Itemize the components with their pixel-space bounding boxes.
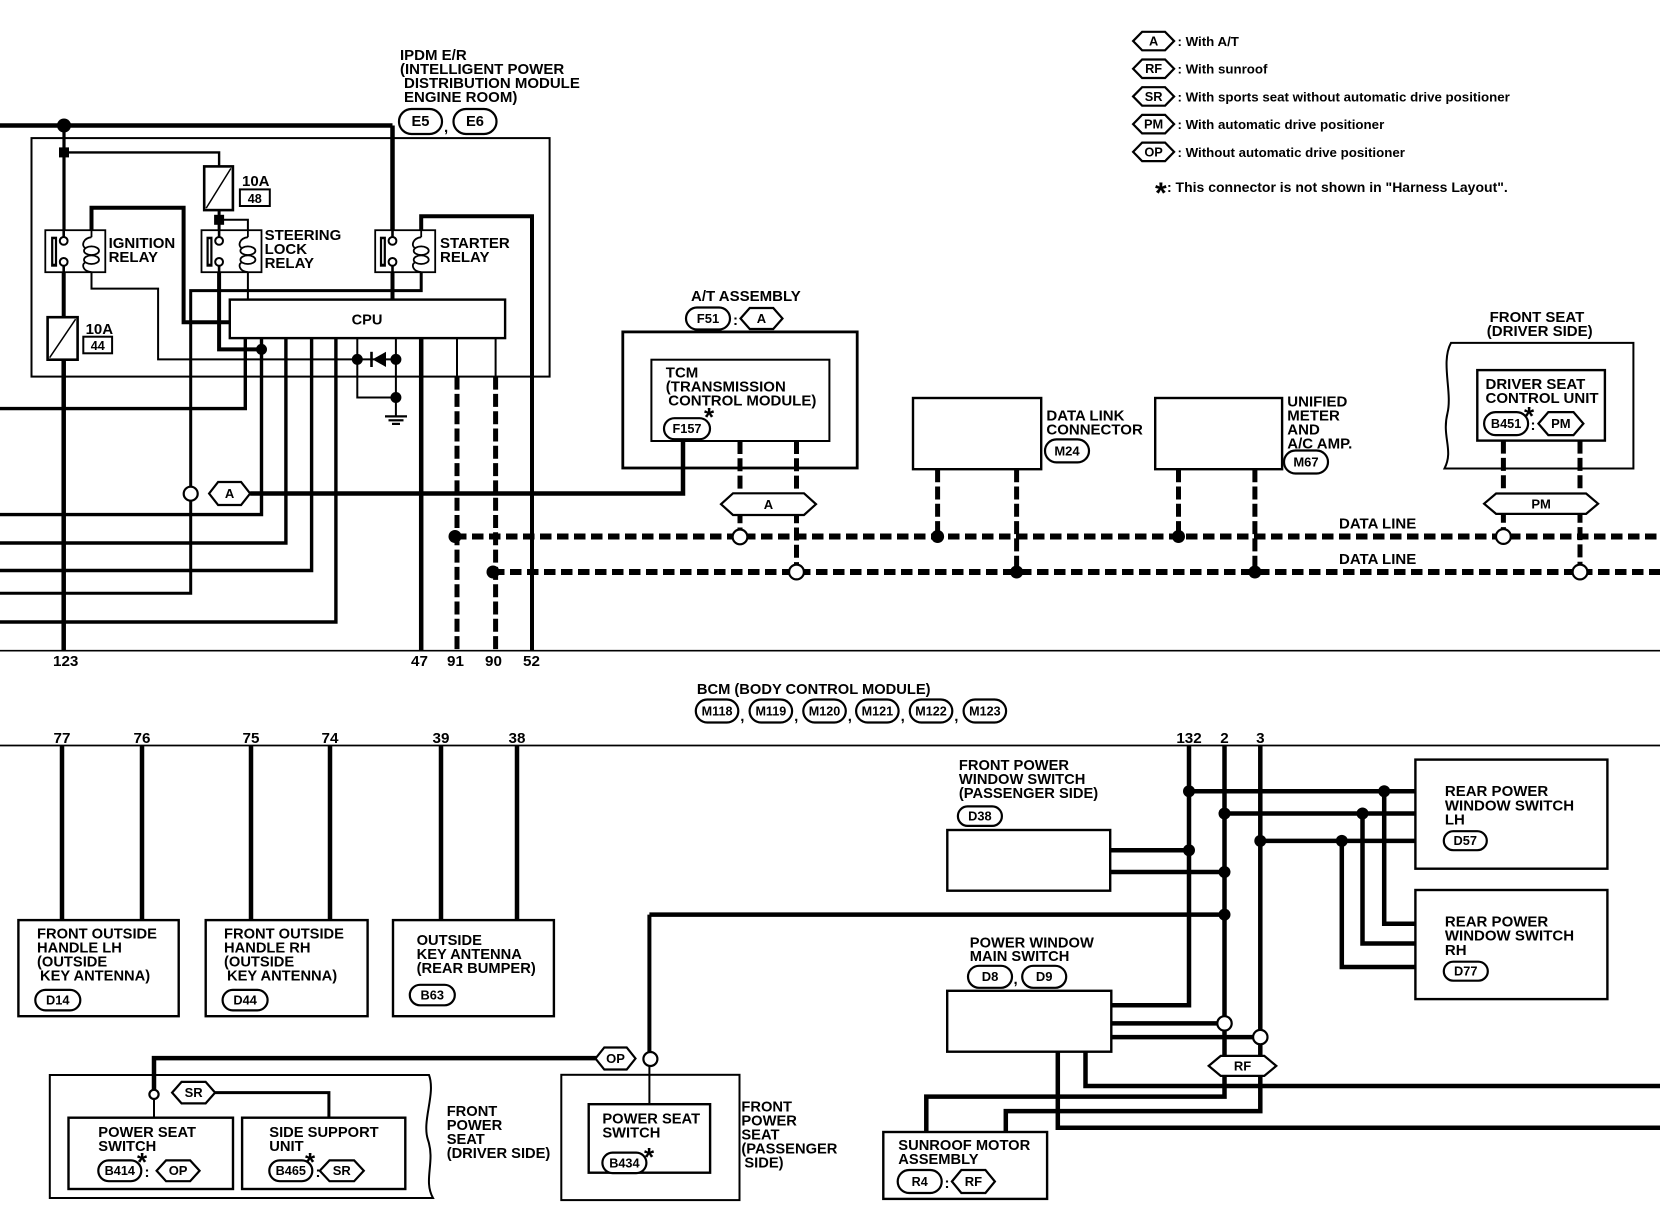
svg-text:F51: F51	[697, 311, 719, 326]
svg-text:3: 3	[1256, 730, 1264, 747]
connector M120	[803, 700, 846, 723]
svg-text:75: 75	[243, 730, 260, 747]
wire: M24 pin to data line 1 (dashed)	[935, 469, 940, 536]
wire: BCM pin 38 to B63	[515, 746, 520, 921]
wire: CPU pin to diode anode junction	[356, 338, 358, 359]
svg-text:M122: M122	[915, 704, 947, 718]
svg-text::: :	[145, 1164, 150, 1181]
hexagon code PM (wide)	[1484, 494, 1598, 514]
wire: battery power feed (top horizontal)	[0, 123, 393, 128]
svg-text:,: ,	[1014, 971, 1018, 988]
A/T assembly box	[623, 332, 857, 468]
svg-text:2: 2	[1220, 730, 1228, 747]
svg-text:,: ,	[740, 708, 744, 725]
svg-text:10A: 10A	[242, 173, 270, 190]
wire: fuse 48 output to steering lock relay	[218, 210, 221, 240]
connector circle driver seat to data line 2	[1573, 565, 1588, 580]
legend hexagon A	[1133, 32, 1174, 51]
fuse 10A #44	[48, 317, 78, 360]
junction dot line C branch down	[1336, 835, 1348, 847]
svg-text:RELAY: RELAY	[440, 249, 489, 266]
wire: CPU pin 90 (solid part inside IPDM)	[495, 338, 497, 377]
side support unit box	[242, 1118, 405, 1189]
svg-text:D44: D44	[233, 993, 257, 1008]
front outside handle LH box	[18, 920, 178, 1016]
wire: BCM pin 75 to D44	[249, 746, 254, 921]
svg-text:M120: M120	[809, 704, 841, 718]
wire: continuation below connector circle to left exit at y593	[0, 501, 191, 594]
svg-text:M118: M118	[702, 704, 733, 718]
svg-text:M67: M67	[1293, 454, 1318, 469]
junction dot at fuse-48 branch	[59, 147, 69, 157]
diode (between CPU pins)	[352, 354, 363, 365]
hexagon code SR at B465	[320, 1160, 364, 1181]
BCM top edge line	[0, 650, 1660, 652]
svg-text:RF: RF	[965, 1174, 982, 1189]
wire: BCM pin 3 down (to RF branch)	[1258, 746, 1263, 1031]
connector circle on driver seat feed	[149, 1090, 158, 1099]
legend hexagon PM	[1133, 115, 1174, 133]
svg-text:RF: RF	[1234, 1059, 1251, 1074]
svg-text:A: A	[225, 486, 235, 501]
wire: CPU pin 90 dashed to BCM	[493, 377, 498, 651]
junction dot line C at pin3	[1254, 835, 1266, 847]
svg-text:OP: OP	[169, 1163, 188, 1178]
wire: steering relay contact output to CPU junction	[219, 272, 261, 349]
wire: M67 pin to data line 2 (dashed)	[1252, 469, 1257, 572]
svg-text:MAIN SWITCH: MAIN SWITCH	[970, 949, 1070, 965]
wire: CPU pin to left exit y622	[0, 338, 336, 622]
svg-text:CPU: CPU	[352, 313, 383, 329]
wire: ignition relay contact output to fuse 44	[62, 272, 66, 317]
connector M24	[1045, 439, 1089, 462]
connector circle driver seat to data line 1	[1496, 529, 1511, 544]
unified meter and A/C amp box	[1155, 398, 1282, 469]
wire: TCM data pin 2 (dashed)	[794, 441, 799, 565]
wire: fuse 44 output down to BCM pin 123	[61, 360, 66, 651]
junction dot M67/data line 1	[1172, 530, 1185, 543]
wire: SR branch to side support unit	[215, 1093, 329, 1118]
connector circle pin3/main switch	[1253, 1030, 1267, 1044]
svg-text:R4: R4	[912, 1175, 928, 1189]
svg-text:PM: PM	[1144, 117, 1163, 132]
svg-text:CONTROL MODULE): CONTROL MODULE)	[668, 393, 816, 410]
svg-text:(DRIVER SIDE): (DRIVER SIDE)	[447, 1146, 551, 1162]
connector D57	[1444, 831, 1487, 850]
svg-text:OP: OP	[606, 1051, 625, 1066]
wire: steering relay coil bottom to CPU top	[247, 272, 249, 299]
power seat switch box (driver)	[69, 1118, 234, 1189]
wire: TCM pin to A hexagon branch	[681, 441, 686, 468]
svg-text::: :	[1531, 417, 1536, 434]
wire: BCM pin 74 to D44	[328, 746, 333, 921]
connector M122	[910, 700, 953, 723]
svg-text:RELAY: RELAY	[265, 255, 314, 272]
wire: ignition relay coil top to CPU (up-over-down)	[92, 208, 230, 322]
junction dot below fuse 48	[214, 215, 224, 225]
data line 2 (dashed bus)	[493, 569, 1660, 575]
wire: line A drop to rear switch RH	[1384, 791, 1415, 924]
power seat switch box (passenger)	[589, 1104, 710, 1173]
wire: driver seat feed from OP hexagon line	[154, 1058, 597, 1090]
TCM box	[651, 360, 829, 441]
svg-text::: :	[945, 1175, 950, 1192]
svg-text:D57: D57	[1454, 833, 1477, 848]
wire: BCM pin 77 to D14	[60, 746, 65, 921]
svg-text:,: ,	[794, 708, 798, 725]
svg-text:,: ,	[954, 708, 958, 725]
wire: diode bypass loop	[357, 359, 396, 397]
wire: power feed drop to starter relay contact	[390, 126, 395, 240]
wire: CPU pin to left exit y408	[0, 338, 245, 409]
wire: drop to OP connector circle	[647, 915, 651, 1052]
svg-text:123: 123	[53, 653, 78, 670]
legend hexagon RF	[1133, 60, 1174, 79]
junction dot at ground node	[390, 392, 401, 403]
junction dot on power feed at x64	[57, 119, 71, 133]
rear power window switch LH box	[1415, 760, 1607, 869]
BCM bottom edge line	[0, 745, 1660, 747]
connector B414	[98, 1160, 141, 1181]
connector M121	[856, 700, 899, 723]
svg-text:(REAR BUMPER): (REAR BUMPER)	[417, 961, 536, 977]
connector B465	[269, 1160, 312, 1181]
front power seat (driver side) box with torn right edge	[50, 1075, 433, 1198]
svg-text:91: 91	[447, 653, 464, 670]
legend hexagon OP	[1133, 143, 1174, 162]
svg-text:M119: M119	[755, 704, 786, 718]
wire: branch line C to rear power window switch LH	[1260, 839, 1415, 844]
svg-text:,: ,	[444, 119, 448, 136]
junction dot line B at pin2	[1219, 808, 1231, 820]
wire: TCM data pin 1 (dashed)	[738, 441, 743, 530]
wire: main switch bottom pin to right edge (lower)	[1058, 1052, 1660, 1128]
svg-text:B451: B451	[1491, 417, 1521, 431]
front seat (driver side) box with torn left edge	[1445, 343, 1634, 469]
legend hexagon SR	[1133, 87, 1174, 106]
svg-text:SIDE): SIDE)	[744, 1156, 783, 1172]
label box: 48	[240, 189, 270, 206]
wire: jog from fuse 48 output to steering relay coil	[219, 220, 248, 231]
svg-text:B434: B434	[609, 1156, 639, 1170]
svg-text:: With A/T: : With A/T	[1178, 34, 1239, 49]
wire: M24 pin to data line 2 (dashed)	[1014, 469, 1019, 572]
wire: pin2 below circle through RF hexagon to sunroof	[926, 1031, 1224, 1132]
wire: ignition relay supply drop from power feed	[62, 126, 65, 241]
wire: driver seat pin to data line 2 (dashed)	[1578, 441, 1583, 565]
sunroof motor assembly box	[883, 1132, 1047, 1199]
svg-text:PM: PM	[1551, 416, 1571, 431]
connector F51	[686, 308, 730, 330]
connector B63	[410, 985, 455, 1006]
connector circle pin2/main switch	[1217, 1016, 1231, 1030]
svg-text:SWITCH: SWITCH	[98, 1139, 156, 1155]
svg-text:UNIT: UNIT	[269, 1139, 303, 1155]
rear power window switch RH box	[1415, 890, 1607, 999]
junction dot at pin2/OP branch	[1219, 909, 1231, 921]
wire: branch line A to rear power window switch LH	[1189, 789, 1415, 794]
wire: BCM pin 39 to B63	[439, 746, 444, 921]
svg-text:ASSEMBLY: ASSEMBLY	[898, 1152, 978, 1168]
svg-text:ENGINE ROOM): ENGINE ROOM)	[404, 89, 517, 106]
svg-text:DATA LINE: DATA LINE	[1339, 516, 1416, 533]
connector D9	[1022, 966, 1066, 988]
svg-text:,: ,	[848, 708, 852, 725]
wire: branch line B to rear power window switch LH	[1225, 811, 1416, 816]
wire: CPU pin to ground	[395, 338, 397, 359]
wire: BCM pin 2 down (to RF branch)	[1222, 746, 1227, 1017]
svg-text:44: 44	[91, 339, 105, 353]
junction dot data line 2 at x493	[487, 566, 500, 579]
svg-text:(PASSENGER SIDE): (PASSENGER SIDE)	[959, 786, 1098, 802]
junction dot data line 1 at x455	[449, 530, 462, 543]
hexagon code PM at B451	[1538, 412, 1583, 435]
svg-text:: With automatic drive positio: : With automatic drive positioner	[1178, 117, 1385, 132]
svg-text:A: A	[1149, 33, 1158, 48]
svg-text:LH: LH	[1445, 812, 1465, 829]
wire: main switch output to pin3 circle	[1111, 1035, 1253, 1040]
svg-text:B414: B414	[105, 1164, 135, 1178]
wire: ignition relay coil bottom toward diode/ground bus	[92, 272, 358, 359]
hexagon code SR (inline)	[172, 1082, 215, 1104]
relay: starter relay	[375, 230, 435, 272]
connector B434	[602, 1153, 646, 1174]
hexagon code OP at B414	[157, 1160, 200, 1181]
wire: below circle into power seat switch B414	[153, 1099, 155, 1118]
wire: BCM pin 132 down to power window main switch	[1111, 746, 1189, 1006]
junction dot line A at pin132	[1183, 785, 1195, 797]
connector M118	[696, 700, 739, 723]
svg-text:SR: SR	[1145, 89, 1163, 104]
svg-text::: :	[316, 1164, 321, 1181]
svg-text:: This connector is not shown: : This connector is not shown in "Harnes…	[1167, 179, 1508, 195]
connector M119	[750, 700, 793, 723]
svg-text:SWITCH: SWITCH	[602, 1126, 660, 1142]
connector E6	[454, 109, 497, 134]
svg-text:D9: D9	[1036, 969, 1053, 984]
svg-text:: With sunroof: : With sunroof	[1178, 62, 1269, 77]
svg-text:10A: 10A	[86, 321, 114, 338]
wire: line C drop to rear switch RH	[1342, 841, 1416, 967]
connector circle TCM to data line 2	[789, 565, 804, 580]
svg-text:52: 52	[523, 653, 540, 670]
wire: M67 pin to data line 1 (dashed)	[1176, 469, 1181, 536]
connector D77	[1444, 962, 1488, 981]
connector E5	[399, 109, 442, 134]
wire: below OP circle into power seat switch B434	[648, 1066, 650, 1104]
svg-text:47: 47	[411, 653, 428, 670]
svg-text:: With sports seat without aut: : With sports seat without automatic dri…	[1178, 89, 1510, 104]
svg-text:B63: B63	[421, 987, 444, 1002]
svg-text:OP: OP	[1144, 144, 1163, 159]
relay: ignition relay	[45, 230, 105, 272]
connector M67	[1284, 451, 1328, 474]
svg-text:77: 77	[54, 730, 71, 747]
driver seat control unit box	[1477, 370, 1605, 441]
connector D44	[223, 990, 268, 1011]
svg-text:DATA LINE: DATA LINE	[1339, 551, 1416, 568]
junction dot D38 line 1	[1183, 844, 1195, 856]
wire: long branch from pin2 line to OP connector (passenger seat)	[649, 912, 1224, 917]
svg-text:48: 48	[248, 192, 262, 206]
wire: line B drop to rear switch RH	[1363, 814, 1416, 944]
junction dot M67/data line 2	[1248, 566, 1261, 579]
svg-text:CONNECTOR: CONNECTOR	[1046, 422, 1143, 439]
wire: CPU pin to left exit y570	[0, 338, 312, 570]
svg-text:A: A	[764, 497, 774, 512]
svg-text:A/T ASSEMBLY: A/T ASSEMBLY	[691, 288, 801, 305]
wire: driver seat pin to data line 1 (dashed)	[1501, 441, 1506, 530]
wire: CPU pin 47 to BCM	[419, 338, 424, 651]
svg-text:: Without automatic drive posi: : Without automatic drive positioner	[1178, 145, 1405, 160]
connector B451	[1484, 412, 1528, 435]
wire: main switch output to pin2 circle	[1111, 1021, 1217, 1026]
wire: starter relay contact bottom to CPU top	[391, 272, 395, 299]
wire: CPU pin to left exit y543	[0, 338, 286, 543]
svg-text:RELAY: RELAY	[109, 249, 158, 266]
svg-text:KEY ANTENNA): KEY ANTENNA)	[40, 969, 150, 985]
svg-text:M24: M24	[1054, 443, 1080, 458]
label box: 44	[83, 337, 112, 354]
junction dot D38 line 2	[1219, 866, 1231, 878]
wire: D38 output 2 to pin2 line	[1110, 870, 1226, 875]
wire: starter relay coil top to IPDM pin 52	[421, 216, 532, 650]
front power window switch (passenger) box	[947, 830, 1110, 891]
front power seat (passenger side) box	[561, 1075, 739, 1200]
svg-text:(DRIVER SIDE): (DRIVER SIDE)	[1487, 323, 1593, 340]
svg-text:90: 90	[485, 653, 502, 670]
svg-text::: :	[733, 312, 738, 329]
svg-text:D8: D8	[982, 969, 999, 984]
svg-text:D38: D38	[968, 809, 991, 824]
svg-text:CONTROL UNIT: CONTROL UNIT	[1486, 390, 1599, 407]
connector M123	[964, 700, 1007, 723]
front outside handle RH box	[206, 920, 368, 1016]
svg-text:RH: RH	[1445, 942, 1467, 959]
hexagon code A (left branch)	[209, 482, 250, 505]
svg-text:SR: SR	[185, 1085, 204, 1100]
svg-text:SR: SR	[333, 1163, 352, 1178]
svg-text:74: 74	[322, 730, 339, 747]
wire: CPU pin to left exit y514	[0, 338, 262, 514]
wire: branch to fuse 48	[64, 152, 219, 166]
svg-text:F157: F157	[673, 422, 702, 436]
hexagon code A (wide, under TCM)	[721, 493, 816, 515]
relay: steering lock relay	[202, 230, 262, 272]
junction dot CPU/steering-contact	[256, 344, 267, 355]
svg-text:M123: M123	[969, 704, 1001, 718]
ground symbol	[385, 415, 407, 417]
wire: BCM pin 76 to D14	[140, 746, 145, 921]
connector circle on A/T branch	[184, 487, 198, 501]
svg-text:PM: PM	[1531, 496, 1551, 511]
wire: pin3 below circle through RF hexagon to sunroof	[1006, 1044, 1261, 1132]
svg-text:E6: E6	[466, 114, 484, 130]
svg-text:BCM (BODY CONTROL MODULE): BCM (BODY CONTROL MODULE)	[697, 682, 931, 698]
wire: D38 output 1 to pin132 line	[1110, 848, 1189, 853]
data link connector box	[913, 398, 1041, 469]
hexagon code OP (inline)	[596, 1048, 636, 1070]
outside key antenna rear bumper box	[393, 920, 554, 1016]
connector circle at OP branch	[643, 1052, 657, 1066]
connector D8	[968, 966, 1012, 988]
wire: starter relay coil bottom loop to left exit	[191, 272, 422, 487]
hexagon code RF (wide)	[1209, 1056, 1277, 1076]
hexagon code RF at R4	[952, 1170, 995, 1193]
fuse 10A #48	[204, 166, 233, 210]
svg-text:39: 39	[433, 730, 450, 747]
connector D38	[958, 806, 1002, 826]
connector R4	[898, 1170, 942, 1193]
svg-text:*: *	[1155, 177, 1167, 210]
svg-text:132: 132	[1176, 730, 1201, 747]
CPU box	[230, 300, 505, 339]
power window main switch box	[947, 991, 1111, 1052]
data line 1 (dashed bus)	[455, 534, 1660, 540]
svg-text:D14: D14	[46, 993, 70, 1008]
junction dot line B branch down	[1357, 808, 1369, 820]
connector D14	[35, 990, 80, 1011]
junction dot M24/data line 2	[1010, 566, 1023, 579]
svg-text:M121: M121	[862, 704, 894, 718]
hexagon code A at F51	[741, 308, 783, 329]
svg-text:38: 38	[509, 730, 526, 747]
junction dot M24/data line 1	[931, 530, 944, 543]
wire: CPU pin 91 (solid part inside IPDM)	[456, 338, 458, 377]
svg-text:RF: RF	[1145, 61, 1162, 76]
svg-text:KEY ANTENNA): KEY ANTENNA)	[227, 969, 337, 985]
svg-text:,: ,	[901, 708, 905, 725]
svg-text:76: 76	[134, 730, 151, 747]
wire: main switch bottom pin to right edge (upper)	[1086, 1052, 1660, 1086]
connector F157	[664, 418, 710, 439]
svg-text:A: A	[757, 311, 767, 326]
svg-text:B465: B465	[276, 1164, 306, 1178]
IPDM E/R enclosure box	[32, 138, 550, 377]
svg-text:D77: D77	[1454, 964, 1477, 979]
wire: A branch to TCM drop	[250, 468, 683, 494]
svg-text:E5: E5	[412, 114, 430, 130]
wire: CPU pin 91 dashed to BCM	[455, 377, 460, 651]
connector circle TCM to data line 1	[733, 530, 748, 545]
junction dot line A branch down	[1378, 785, 1390, 797]
